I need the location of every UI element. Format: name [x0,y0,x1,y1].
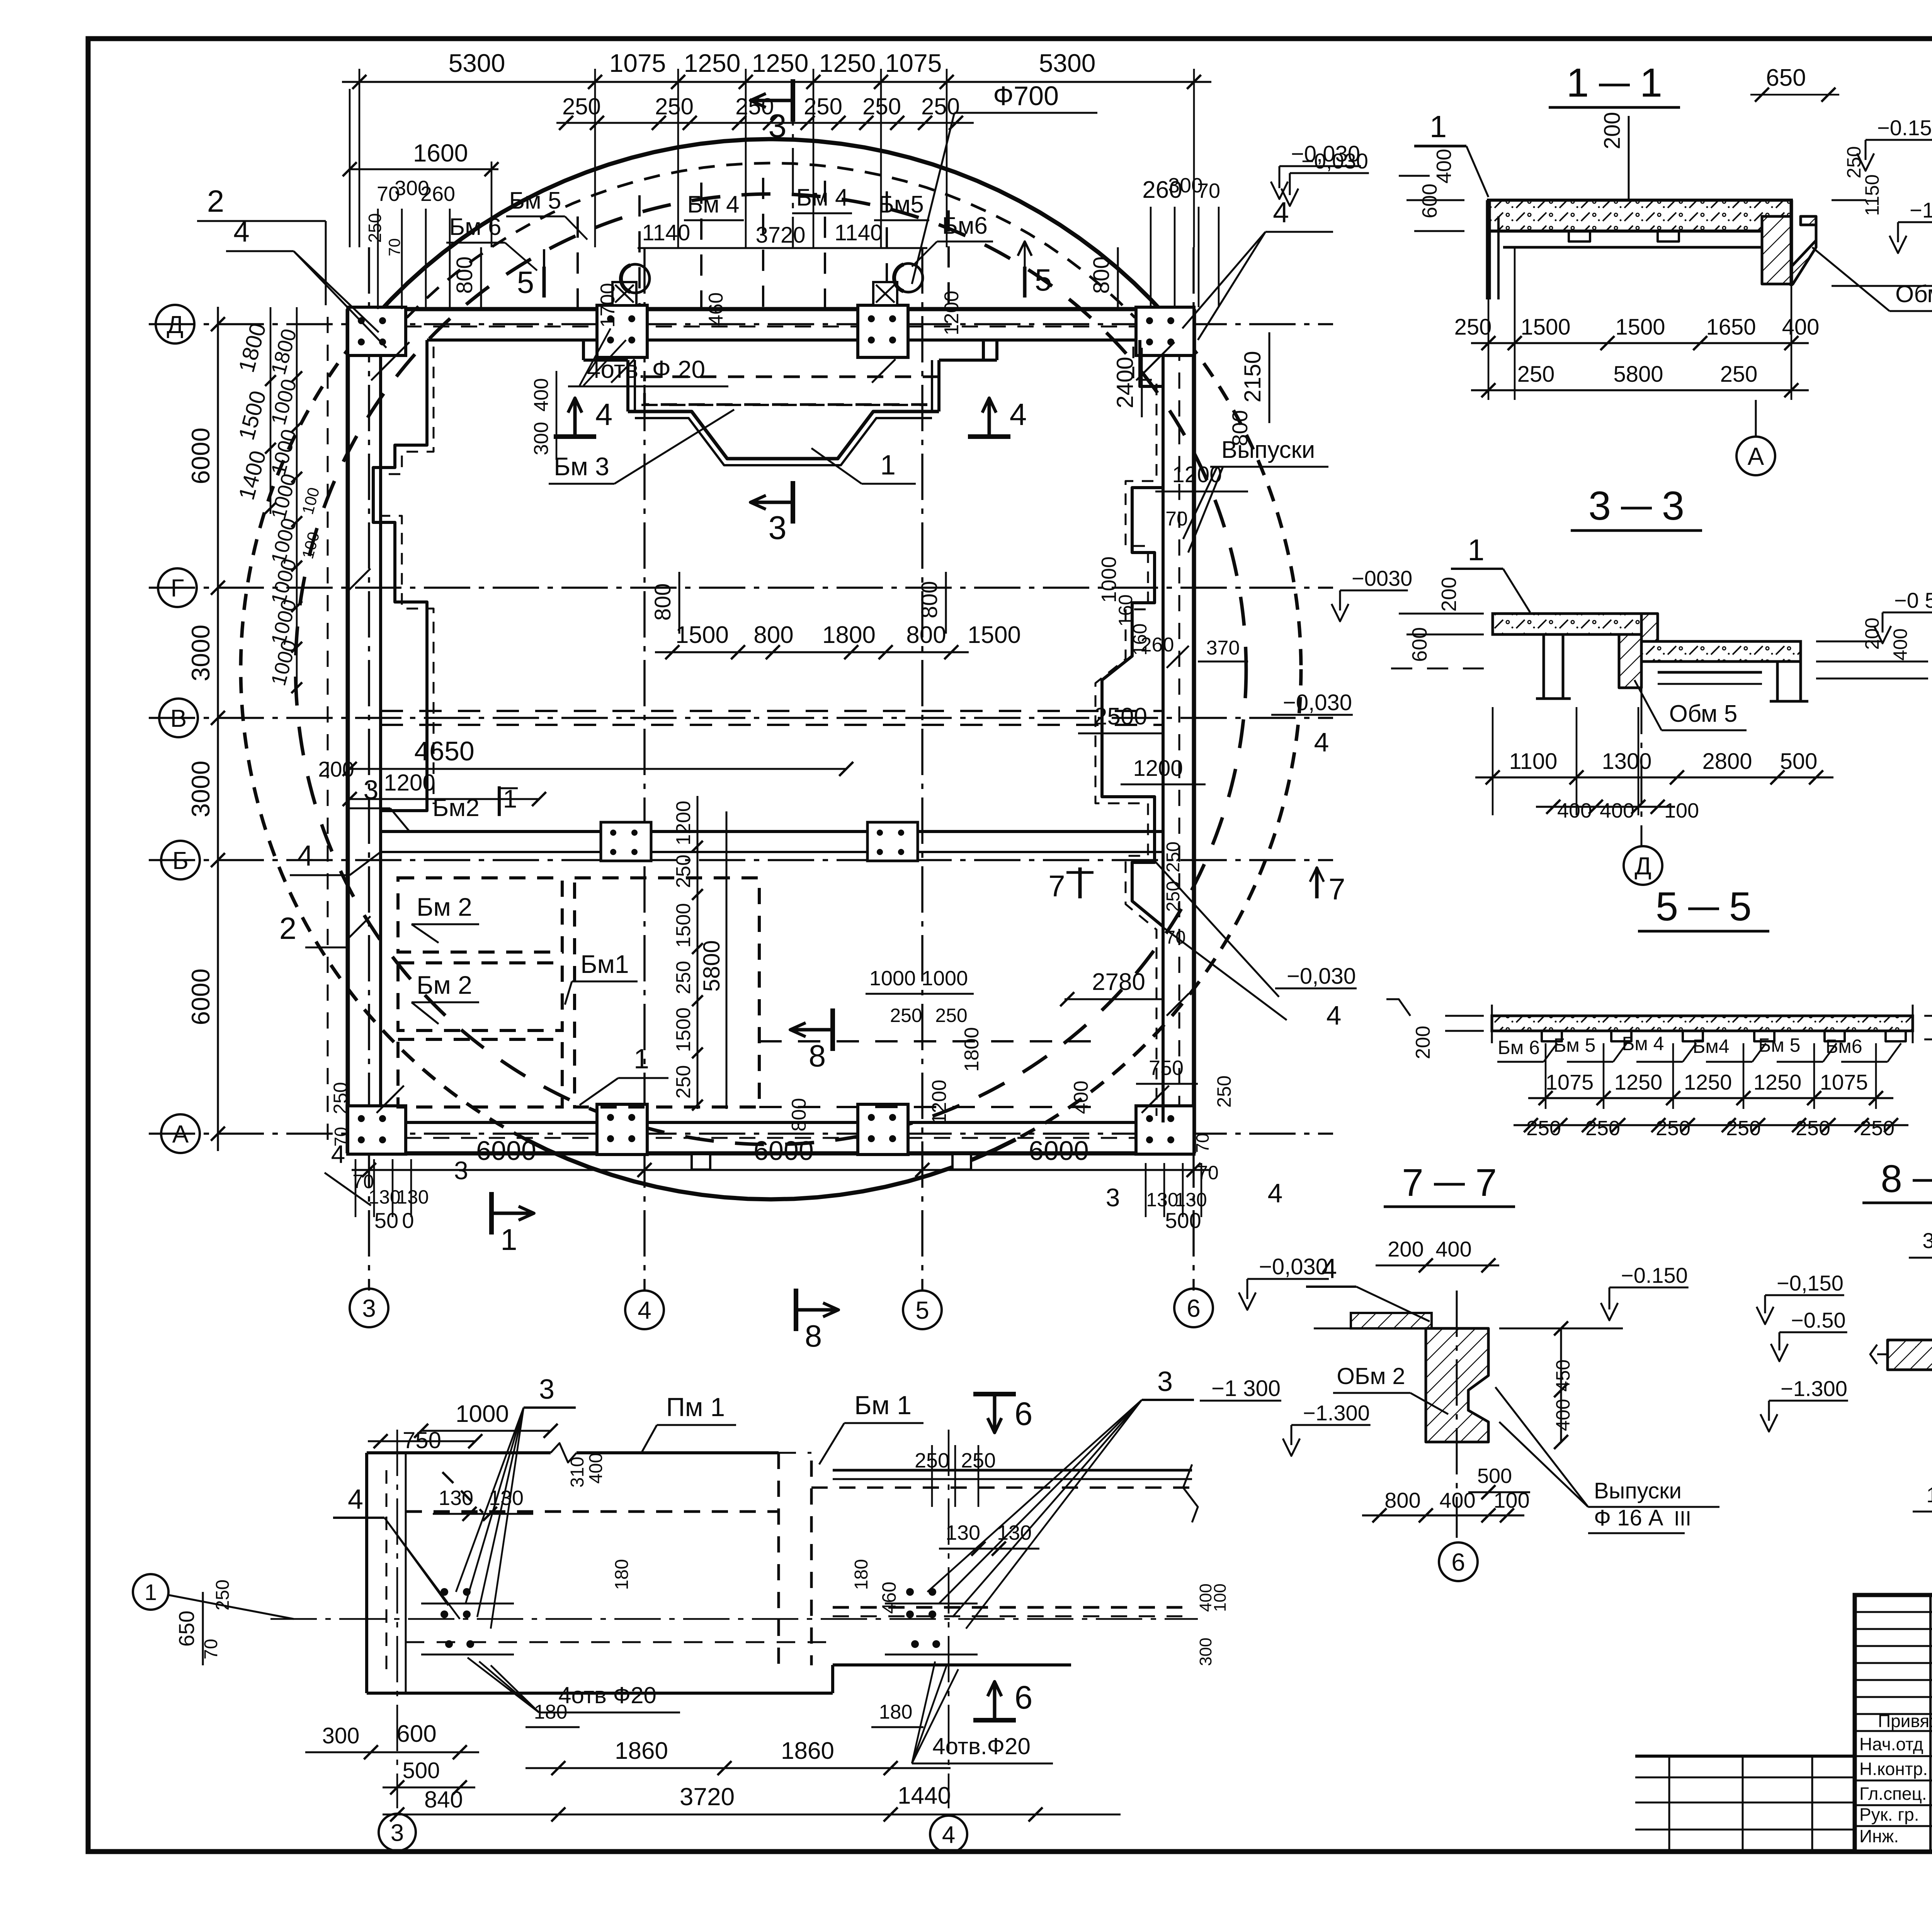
svg-text:250: 250 [1213,1075,1235,1107]
detail leader 4 left [333,1484,460,1619]
bottom-left corner small dims [325,1082,468,1233]
svg-text:1140: 1140 [835,220,883,245]
plan top dimension chain [342,49,1211,247]
svg-text:2: 2 [279,911,297,945]
svg-text:Выпуски: Выпуски [1594,1478,1682,1503]
svg-text:1250: 1250 [684,49,741,77]
svg-text:4: 4 [1321,1253,1337,1284]
svg-text:400: 400 [1889,628,1911,660]
svg-text:Бм 3: Бм 3 [554,452,609,481]
svg-text:Бм5: Бм5 [878,191,924,218]
svg-text:−1.300: −1.300 [1303,1401,1370,1425]
top-right corner small dims [1142,174,1333,340]
vypuski label [1183,437,1328,553]
svg-text:1650: 1650 [1706,315,1756,340]
label 4650 dim [343,736,853,776]
svg-text:1250: 1250 [1684,1070,1732,1094]
svg-text:1075: 1075 [609,49,666,77]
svg-text:200: 200 [318,757,354,781]
svg-text:Д: Д [167,311,183,338]
svg-text:250: 250 [1843,146,1865,178]
svg-text:Бм1: Бм1 [580,950,629,978]
level -0,030 below plan right [1239,1254,1329,1310]
title block outer box [1855,1595,1932,1852]
leader 4 left lower [290,839,381,875]
section cut 2 left lower [279,911,350,1223]
svg-text:2: 2 [207,184,224,218]
svg-text:250: 250 [804,94,842,119]
svg-text:180: 180 [612,1559,632,1590]
svg-text:5: 5 [915,1296,929,1324]
svg-text:250: 250 [562,94,601,119]
inner chamber outline right stepped [1095,340,1163,1122]
inner chamber outline left [373,340,434,811]
svg-text:3: 3 [539,1374,554,1405]
svg-text:3: 3 [391,1819,404,1846]
svg-text:1200: 1200 [940,291,963,335]
svg-text:300: 300 [1922,1228,1932,1253]
svg-text:6000: 6000 [753,1136,814,1166]
detail bolt group left [421,1588,514,1655]
svg-text:4: 4 [638,1296,651,1324]
svg-text:4: 4 [348,1484,363,1515]
section 5-5 profile [1492,1005,1913,1043]
svg-text:200: 200 [1437,577,1461,612]
svg-text:1800: 1800 [822,622,876,648]
svg-text:70: 70 [1197,1162,1219,1184]
svg-text:500: 500 [1780,749,1818,774]
arch radial dashed beams [578,178,949,309]
svg-text:5800: 5800 [699,940,724,991]
section 5-5 labels [1386,988,1932,1140]
svg-text:840: 840 [424,1787,463,1813]
plan outer walls [328,309,1194,1153]
svg-text:100: 100 [1211,1583,1230,1612]
svg-text:300: 300 [1196,1638,1215,1666]
label 200 left [318,757,354,781]
svg-text:1800: 1800 [961,1027,983,1072]
detail Bm1 beam to right [811,1464,1198,1616]
svg-text:1200: 1200 [384,770,435,796]
svg-text:3720: 3720 [755,223,805,248]
svg-text:6: 6 [1015,1396,1033,1432]
svg-text:2400: 2400 [1112,357,1138,408]
svg-text:8: 8 [805,1319,822,1353]
svg-text:310: 310 [567,1457,588,1488]
top-left corner small dims [365,177,455,309]
svg-text:1: 1 [1430,109,1447,144]
section 3-3 profile [1493,614,1808,701]
level -0030 right lower [1155,862,1357,1030]
svg-text:Бм 5: Бм 5 [509,187,561,214]
svg-text:800: 800 [1089,257,1114,294]
bottom-right corner small dims [1106,1056,1283,1233]
portal dashed duct band [645,377,939,405]
svg-text:370: 370 [1206,637,1240,659]
plan outer shell dashed circle [241,139,1301,1199]
detail label 4otv F20 right [912,1661,1053,1763]
svg-text:180: 180 [851,1559,872,1590]
plan top arch solid arc [375,139,1167,318]
svg-text:3000: 3000 [186,761,215,818]
svg-text:−0,030: −0,030 [1283,690,1352,715]
axis circle D [156,305,194,343]
svg-text:1: 1 [1566,60,1589,105]
svg-text:5: 5 [1656,884,1678,929]
svg-text:4: 4 [595,397,613,432]
label Bm3 [549,410,734,484]
svg-text:750: 750 [1149,1056,1184,1080]
leader 4 top-left [226,215,386,348]
axis circle 5 plan [903,1291,942,1329]
svg-text:250: 250 [672,961,695,995]
svg-text:2500: 2500 [1094,703,1147,730]
svg-text:4: 4 [1010,397,1027,432]
axis circle V [159,699,198,737]
svg-text:6: 6 [1451,1548,1465,1576]
title block left attachment cells [1635,1756,1855,1852]
svg-text:400: 400 [1435,1237,1471,1261]
manhole F700 right [894,264,923,292]
svg-text:1100: 1100 [1509,749,1558,774]
axis circle 3 plan [350,1289,388,1327]
portal trapezoid pit [628,405,939,465]
svg-text:400: 400 [1439,1488,1475,1512]
svg-text:650: 650 [174,1610,199,1646]
leader 1 portal [811,448,916,484]
Bm2 dashed slab rect 2 [398,963,562,1030]
section cut 8 marks [788,1008,1092,1353]
svg-text:Бм 5: Бм 5 [1554,1034,1596,1056]
svg-text:1000: 1000 [869,967,916,990]
section cut 7 right [1310,867,1345,906]
detail axis dash-dot [270,1430,1198,1808]
svg-text:800: 800 [650,583,675,621]
svg-text:1: 1 [500,1223,517,1257]
svg-text:Бм 4: Бм 4 [1622,1033,1664,1054]
svg-text:200: 200 [1412,1026,1434,1059]
svg-text:Д: Д [1634,852,1651,880]
detail bottom dims [305,1721,1121,1821]
svg-text:Инж.: Инж. [1859,1826,1899,1846]
svg-text:400: 400 [1432,149,1456,184]
svg-text:Б: Б [172,847,189,874]
svg-text:5: 5 [1729,884,1752,929]
svg-text:300: 300 [322,1723,360,1748]
svg-text:5300: 5300 [449,49,505,77]
label Bm2 flag [432,784,518,821]
svg-text:6000: 6000 [186,969,215,1025]
svg-text:460: 460 [705,292,727,326]
svg-text:400: 400 [586,1453,606,1484]
svg-text:250: 250 [890,1005,922,1026]
svg-text:800: 800 [788,1098,810,1132]
svg-text:250: 250 [1517,362,1555,387]
svg-text:1500: 1500 [675,622,729,648]
svg-text:−1.300: −1.300 [1781,1376,1847,1401]
svg-text:−0.50: −0.50 [1791,1308,1846,1332]
column pad A-5 [858,1104,908,1155]
svg-text:4: 4 [942,1821,955,1848]
svg-text:Бм 4: Бм 4 [796,184,848,211]
detail top dims [368,1401,1039,1556]
svg-text:1300: 1300 [1602,749,1651,774]
svg-text:180: 180 [879,1701,913,1723]
svg-text:2150: 2150 [1240,351,1265,402]
detail section 6 marks [973,1394,1032,1720]
section 8-8 title [1862,1157,1932,1203]
svg-text:250: 250 [330,1082,351,1114]
svg-text:А: А [1748,442,1764,470]
svg-text:800: 800 [452,257,477,294]
axis column lines [369,247,1194,1291]
plan mid dimension chain 1500-800-1800-800-1500 [655,622,1021,659]
dim 800 mid-left [650,572,679,634]
svg-text:1000: 1000 [456,1401,509,1427]
svg-text:600: 600 [396,1721,436,1747]
svg-text:400: 400 [530,378,553,412]
svg-text:250: 250 [672,855,695,888]
detail leader 3 left [456,1374,576,1629]
svg-text:−1 300: −1 300 [1211,1376,1281,1401]
svg-text:2780: 2780 [1092,969,1145,995]
detail axis circle 4 [930,1816,967,1853]
svg-text:4: 4 [1327,1000,1342,1030]
svg-text:3: 3 [768,108,786,145]
svg-text:6000: 6000 [476,1136,536,1166]
svg-text:400: 400 [1552,1399,1574,1431]
svg-text:250: 250 [1526,1117,1561,1140]
hidden floor dashes lower right [759,1041,1099,1107]
svg-text:Бм2: Бм2 [432,794,480,821]
detail bolt group right [885,1588,978,1655]
svg-text:1250: 1250 [819,49,876,77]
section cut 3 top [750,79,793,247]
row B interior floor wall [381,822,1163,861]
level -0030 right upper [1271,690,1353,757]
svg-text:1150: 1150 [1861,174,1883,216]
svg-text:В: В [170,704,187,732]
axis circle A [161,1114,200,1153]
svg-text:600: 600 [1408,627,1431,662]
detail interior dashed lines [406,1472,833,1642]
svg-text:70: 70 [385,238,403,257]
corner pad top-right [1136,307,1194,355]
svg-text:А: А [172,1120,189,1148]
section 3-3 axis D circle [1624,846,1662,885]
svg-text:−0 500: −0 500 [1894,588,1932,612]
svg-text:800: 800 [1384,1488,1420,1512]
svg-text:−1.300: −1.300 [1910,198,1932,222]
manhole F700 left [621,264,650,293]
svg-text:−0,030: −0,030 [1301,149,1368,173]
plan left main dimension chain [186,307,225,1151]
svg-text:Бм6: Бм6 [942,213,988,239]
detail misc rotated dims [174,1559,1230,1727]
detail leader 3 right [927,1366,1194,1629]
svg-text:3: 3 [1106,1183,1120,1212]
plan bottom dimension chain 6000s [352,1136,1211,1177]
svg-text:−0,150: −0,150 [1777,1271,1844,1295]
svg-text:1200: 1200 [672,801,695,845]
svg-text:6000: 6000 [186,428,215,485]
svg-text:200: 200 [1600,112,1625,150]
svg-text:III: III [1674,1507,1691,1530]
svg-text:1500: 1500 [672,1007,695,1052]
Bm1 dashed slab tall rect [575,878,759,1107]
svg-text:1700: 1700 [597,283,619,328]
svg-text:3: 3 [1157,1366,1173,1397]
axis circle G [158,568,197,607]
dim 800 right arch [1089,247,1118,309]
axis row lines [149,324,1333,1134]
svg-text:800: 800 [753,622,793,648]
svg-text:Бм6: Бм6 [1826,1036,1862,1057]
dims 400 300 left portal [530,371,556,460]
label 4otv F20 [568,328,728,386]
detail Pm1 dashed verticals [779,1453,811,1665]
svg-text:0: 0 [402,1208,414,1233]
svg-text:3: 3 [1588,483,1611,529]
section 3-3 title [1571,483,1702,531]
svg-text:Бм 4: Бм 4 [687,191,739,218]
svg-text:160: 160 [1115,594,1136,626]
svg-text:1250: 1250 [1753,1070,1802,1094]
svg-text:4: 4 [331,1140,345,1168]
svg-text:Ф 16 А: Ф 16 А [1594,1505,1663,1530]
svg-text:6000: 6000 [1029,1136,1089,1166]
corner pad bottom-right [1136,1106,1194,1154]
plan bottom solid arc [526,1139,1016,1199]
svg-text:6: 6 [1187,1294,1201,1322]
outlet stubs bottom [692,1154,971,1170]
svg-text:Обм 5: Обм 5 [1669,701,1738,727]
detail beam plan outline [367,1443,1071,1693]
section 7-7 labels [1283,1237,1719,1533]
section 1-1 left flag [1414,109,1488,197]
svg-text:250: 250 [935,1005,967,1026]
svg-text:260: 260 [1141,634,1174,656]
svg-text:70: 70 [1192,1133,1213,1153]
detail labels Pm1 Bm1 [641,1391,923,1464]
svg-text:3: 3 [1662,483,1684,529]
svg-text:250: 250 [862,94,901,119]
svg-text:250: 250 [1860,1117,1895,1140]
svg-text:5: 5 [1035,263,1052,297]
svg-text:250: 250 [1656,1117,1690,1140]
svg-text:250: 250 [213,1580,233,1610]
svg-text:4: 4 [297,839,313,872]
svg-text:4: 4 [233,215,250,248]
section cut 4 right [968,397,1027,437]
section 5-5 title [1638,884,1769,931]
svg-text:650: 650 [1766,65,1806,91]
section cut 3 mid [750,481,793,546]
svg-text:1140: 1140 [642,220,690,245]
svg-text:−0,030: −0,030 [1259,1254,1328,1279]
svg-text:−0.150: −0.150 [1877,116,1932,140]
portal niche inner walls [583,340,997,412]
svg-text:Бм 6: Бм 6 [449,214,501,240]
svg-text:1500: 1500 [672,903,695,948]
svg-text:Бм4: Бм4 [1693,1036,1730,1057]
detail label 4otv F20 left [468,1658,680,1712]
svg-text:3: 3 [364,775,379,805]
svg-text:1500: 1500 [968,622,1021,648]
Bm2 dashed slab rect 3 [398,1039,562,1107]
section 1-1 slab profile [1488,200,1816,299]
dim 800 left arch [452,247,481,309]
plan left secondary chains [234,307,323,695]
row V hidden wall dashes [381,711,1163,725]
svg-text:460: 460 [878,1581,900,1614]
svg-text:Бм 2: Бм 2 [417,971,472,999]
svg-text:8: 8 [809,1039,826,1073]
svg-text:Пм 1: Пм 1 [666,1393,725,1422]
svg-text:130: 130 [1146,1189,1178,1211]
svg-text:−0030: −0030 [1352,566,1412,590]
svg-text:4: 4 [1314,727,1329,757]
title block names column [1859,1711,1932,1848]
svg-text:130: 130 [946,1521,980,1544]
svg-text:8: 8 [1881,1157,1902,1201]
label Bm1 [565,950,638,1005]
svg-text:100: 100 [1664,799,1699,822]
svg-text:1250: 1250 [1614,1070,1663,1094]
svg-text:1000: 1000 [922,967,968,990]
svg-text:130: 130 [439,1486,473,1510]
svg-text:250: 250 [672,1065,695,1099]
section 7-7 axis 6 circle [1439,1542,1478,1581]
svg-text:1200: 1200 [928,1080,951,1124]
svg-text:1: 1 [1468,533,1484,567]
svg-text:1: 1 [1640,60,1662,105]
dim 800 mid-right [917,572,946,634]
section 8-8 profile [1870,1283,1932,1530]
section 3-3 labels [1332,533,1932,847]
axis circle 4 plan [625,1291,664,1329]
svg-text:400: 400 [1070,1081,1092,1114]
detail axis circle 3 [379,1814,416,1851]
svg-text:5: 5 [517,265,534,299]
svg-text:100: 100 [1926,1483,1932,1507]
svg-text:250: 250 [655,94,694,119]
plan 1600 dim top-left [343,89,498,247]
svg-text:300: 300 [530,422,553,456]
svg-text:1075: 1075 [1546,1070,1594,1094]
svg-text:250: 250 [1163,881,1184,912]
svg-text:1075: 1075 [885,49,942,77]
plan inner right vertical chain [672,796,726,1110]
svg-text:Бм 2: Бм 2 [417,893,472,921]
svg-text:6: 6 [1015,1679,1033,1716]
svg-text:400: 400 [1557,799,1592,822]
svg-text:1440: 1440 [898,1782,951,1809]
F700 label [912,81,1097,284]
svg-text:7: 7 [1402,1161,1423,1204]
section 1-1 axis A circle [1736,400,1775,475]
section 1-1 title [1549,60,1680,107]
axis circle B [161,841,200,879]
svg-text:250: 250 [1726,1117,1761,1140]
svg-text:1600: 1600 [413,139,468,167]
svg-text:200: 200 [1388,1237,1423,1261]
section 7-7 profile [1314,1291,1488,1538]
svg-text:250: 250 [1454,315,1492,340]
svg-text:Рук. гр.: Рук. гр. [1859,1804,1919,1825]
svg-text:3000: 3000 [186,625,215,682]
svg-text:1: 1 [634,1044,649,1075]
